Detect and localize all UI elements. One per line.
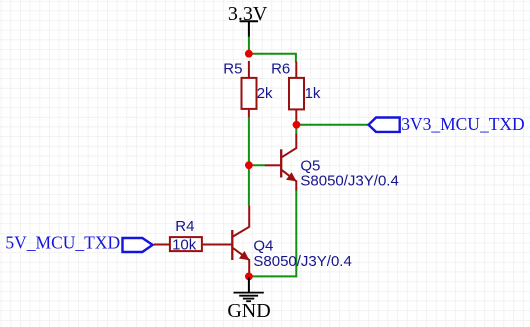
wire junction C short stub below: [295, 128, 297, 135]
junction node A (3.3V rail): [245, 50, 253, 58]
junction node B (Q4 collector / Q5 base): [245, 161, 253, 169]
transistor Q5: [265, 134, 297, 191]
wire junction B to Q5 base: [249, 164, 265, 166]
svg-text:S8050/J3Y/0.4: S8050/J3Y/0.4: [300, 173, 398, 190]
power symbol 3.3V: [240, 21, 258, 37]
svg-text:3.3V: 3.3V: [228, 3, 268, 25]
junction node C (Q5 collector / R6): [293, 121, 301, 129]
svg-text:3V3_MCU_TXD: 3V3_MCU_TXD: [401, 114, 524, 134]
wire junction B to Q4 collector: [248, 165, 250, 206]
resistor R6: [289, 62, 304, 123]
port 5V_MCU_TXD: [123, 238, 153, 252]
port 3V3_MCU_TXD: [369, 118, 400, 132]
wire junction C to port 3V3_MCU_TXD: [299, 124, 368, 126]
resistor R4: [170, 237, 232, 251]
wire port to R4: [154, 244, 169, 246]
svg-text:GND: GND: [227, 300, 270, 322]
svg-text:10k: 10k: [172, 237, 197, 254]
wire Q5 emitter to junction D: [252, 190, 296, 277]
svg-text:R6: R6: [271, 61, 290, 78]
svg-text:2k: 2k: [257, 85, 273, 102]
svg-text:R5: R5: [223, 61, 242, 78]
wire junction A to R6 top: [249, 54, 296, 63]
svg-text:S8050/J3Y/0.4: S8050/J3Y/0.4: [253, 253, 351, 270]
svg-text:5V_MCU_TXD: 5V_MCU_TXD: [5, 232, 120, 252]
wire R5 bottom to junction B: [248, 117, 250, 165]
wire 3.3V to junction A: [248, 37, 250, 53]
transistor Q4: [203, 206, 249, 274]
ground GND: [234, 277, 264, 301]
svg-text:1k: 1k: [305, 85, 321, 102]
resistor R5: [242, 61, 257, 118]
junction node D (Q4 emitter / GND): [245, 273, 253, 281]
svg-text:R4: R4: [175, 218, 194, 235]
